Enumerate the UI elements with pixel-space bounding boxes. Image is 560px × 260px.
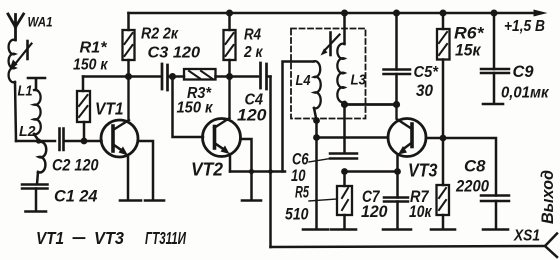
svg-text:150 к: 150 к (177, 100, 214, 117)
capacitor C9 (481, 13, 550, 104)
svg-text:C5*: C5* (414, 64, 439, 81)
svg-text:VT1: VT1 (36, 228, 64, 248)
svg-text:R4: R4 (244, 27, 261, 44)
wire C4 to output (269, 77, 272, 248)
wire L1 bottom to base wire (15, 82, 16, 141)
wire L2 tap (34, 134, 39, 141)
svg-text:Выход: Выход (538, 170, 557, 224)
svg-text:L3: L3 (351, 73, 367, 89)
node rail R4 (226, 10, 233, 17)
node VT1 collector (125, 73, 132, 80)
node output line cross (268, 169, 273, 174)
svg-text:VT3: VT3 (94, 228, 124, 248)
resistor R2 (123, 13, 179, 77)
wire to VT3 left (317, 136, 389, 139)
wire emitter node VT3 (345, 170, 398, 173)
node L4/box (313, 117, 320, 124)
svg-text:R1*: R1* (80, 40, 108, 57)
resistor R7 (409, 138, 449, 229)
svg-text:C1 24: C1 24 (54, 188, 98, 206)
wire VT1 right to ground (138, 141, 153, 200)
resistor R3 (177, 69, 259, 117)
svg-text:C8: C8 (464, 157, 486, 176)
wire output bottom (271, 246, 546, 247)
shield box dashed (291, 29, 366, 119)
inductor L1 (9, 40, 33, 100)
resistor R5 (285, 172, 352, 230)
capacitor C1 (22, 185, 98, 212)
svg-text:2 к: 2 к (243, 44, 263, 61)
capacitor C2 (52, 129, 102, 175)
ground C8 (483, 228, 508, 231)
resistor R1 (73, 40, 109, 142)
ground C7 (383, 228, 411, 231)
node VT3 emitter (394, 168, 401, 175)
svg-text:0,01мк: 0,01мк (501, 85, 550, 102)
node rail C9 (491, 10, 498, 17)
wire L3 node to VT3 collector (345, 103, 397, 106)
node emitter/ground (249, 169, 254, 174)
wire node76 horizontal (83, 75, 160, 78)
node VT3 base (440, 135, 447, 142)
inductor L3 (337, 44, 366, 103)
svg-text:30: 30 (416, 82, 434, 100)
svg-text:15к: 15к (455, 42, 482, 60)
capacitor C5 (384, 13, 439, 105)
node VT2 collector (226, 73, 233, 80)
wire L3 column (343, 13, 346, 153)
transistor VT1 (95, 77, 138, 201)
node rail L3 (341, 10, 348, 17)
svg-text:VT2: VT2 (191, 160, 223, 180)
ground VT1 right (145, 199, 164, 202)
transistor VT2 (191, 77, 241, 180)
node VT3 collector (393, 101, 400, 108)
node rail R6 (440, 10, 447, 17)
node VT2 base drop (169, 73, 176, 80)
svg-text:XS1: XS1 (513, 228, 540, 245)
leader C6 (309, 159, 330, 163)
svg-text:VT3: VT3 (408, 161, 438, 181)
ground C9 (483, 103, 503, 106)
node tap L2/base wire (36, 138, 41, 143)
svg-text:510: 510 (285, 206, 309, 224)
node L3 bottom (341, 101, 348, 108)
svg-text:120: 120 (361, 203, 388, 221)
ground VT1 emitter (120, 199, 141, 202)
svg-text:−: − (71, 228, 86, 248)
svg-text:L1: L1 (18, 84, 33, 100)
svg-text:ГТ311И: ГТ311И (145, 228, 186, 248)
svg-text:VT1: VT1 (95, 99, 124, 119)
ground R5 (331, 228, 356, 231)
power rail +1,5V (129, 10, 548, 36)
node R1 bottom / VT1 base (81, 138, 88, 145)
ground under C1 (26, 210, 47, 213)
connector XS1 (513, 228, 557, 258)
svg-text:WA1: WA1 (28, 14, 53, 30)
wire VT2 base (173, 77, 204, 138)
svg-text:10к: 10к (409, 203, 433, 221)
capacitor C3 (148, 45, 201, 91)
leader R5 (309, 199, 337, 201)
node L4/VT3 wire (313, 134, 320, 141)
capacitor C8 (443, 138, 509, 229)
svg-text:10: 10 (291, 167, 306, 185)
resistor R6 (437, 13, 485, 138)
node rail C5 (393, 10, 400, 17)
node C6/R5 (341, 168, 348, 175)
ground VT2 (242, 199, 261, 202)
wire L2 to C1 (37, 172, 38, 184)
ground L4 (303, 228, 328, 231)
wire L4 bracket (283, 62, 314, 172)
L1 tuning core dash (26, 41, 29, 59)
inductor L4 (296, 61, 321, 108)
capacitor C6 (291, 151, 357, 186)
transistor VT3 (388, 105, 443, 181)
svg-text:R2 2к: R2 2к (141, 26, 179, 43)
svg-text:L4: L4 (296, 73, 311, 89)
svg-text:C6: C6 (292, 151, 309, 169)
wire VT1 base line (16, 140, 55, 143)
svg-text:R6*: R6* (454, 25, 485, 43)
inductor L2 upper (19, 90, 41, 140)
wire VT2 right to ground (241, 139, 252, 200)
svg-text:+1,5 В: +1,5 В (504, 18, 545, 35)
inductor L2 lower (38, 142, 46, 173)
wire VT2 emitter node (230, 170, 285, 173)
capacitor C4 (237, 63, 271, 125)
L1 tuning arrow (14, 44, 32, 67)
svg-text:150 к: 150 к (73, 57, 109, 74)
box tuning core dash (329, 33, 332, 56)
ground R7 (431, 228, 455, 231)
svg-text:C2 120: C2 120 (52, 157, 99, 175)
svg-text:C9: C9 (513, 63, 535, 81)
svg-text:R5: R5 (295, 184, 310, 202)
box tuning arrow (325, 35, 340, 51)
svg-text:120: 120 (237, 107, 267, 125)
svg-text:C3 120: C3 120 (148, 45, 201, 62)
svg-text:2200: 2200 (455, 177, 489, 196)
antenna WA1 (8, 14, 53, 41)
capacitor C7 (361, 172, 408, 230)
node bar (L2 top) (28, 78, 45, 90)
svg-text:L2: L2 (19, 124, 36, 140)
wire L4 bottom to ground (314, 108, 317, 229)
resistor R4 (224, 13, 264, 77)
